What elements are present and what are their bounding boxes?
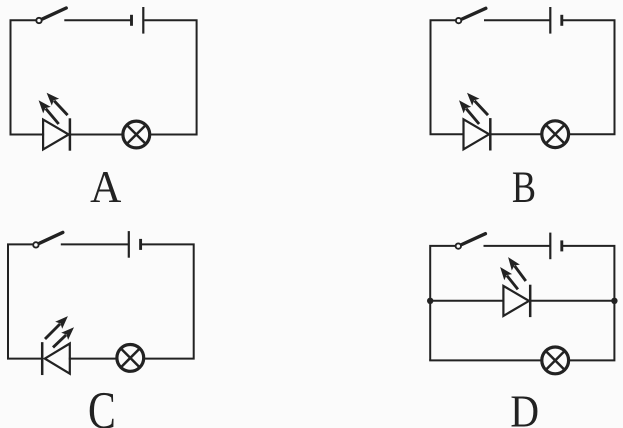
LED D2 triangle (circuit B): [464, 119, 490, 149]
LED D2 cathode bar (circuit B): [489, 118, 492, 150]
switch S3 (open, circuit C): [33, 232, 63, 247]
LED D1 light arrow 1 (circuit A): [47, 93, 68, 115]
switch S4 (open, circuit D): [456, 234, 486, 249]
lamp L3 (circuit C): [117, 345, 144, 372]
svg-text:C: C: [88, 383, 116, 428]
battery B2 (circuit B, long plate left / short plate right): [550, 7, 562, 34]
wire: circuit C switch to battery: [62, 243, 128, 245]
svg-text:D: D: [510, 387, 539, 428]
battery B4 (circuit D, long plate left / short plate right): [550, 233, 562, 260]
LED D4 light arrow 1 (circuit D): [508, 257, 526, 281]
LED D3 light arrow 1 (circuit C): [45, 316, 68, 339]
wire: circuit B lamp to LED: [490, 133, 541, 135]
LED D3 light arrow 2 (circuit C): [53, 327, 74, 347]
wire: circuit A left side, bottom-left corner to top-left corner: [11, 20, 37, 134]
switch S1 (open, circuit A): [36, 8, 66, 23]
label A: [90, 161, 121, 212]
wire: circuit D left side, bottom-left corner through junction to top-left corner: [430, 246, 455, 361]
junction node N1 (circuit D left): [427, 298, 433, 304]
LED D4 cathode bar (circuit D): [529, 285, 532, 317]
lamp L2 (circuit B): [542, 121, 569, 148]
wire: circuit B LED to bottom-left corner: [431, 133, 464, 135]
wire: circuit D switch to battery: [485, 245, 550, 247]
wire: circuit C left side, bottom-left corner to top-left corner: [8, 244, 33, 358]
svg-text:B: B: [512, 162, 536, 211]
lamp L4 (circuit D): [542, 347, 569, 374]
LED D2 light arrow 2 (circuit B): [459, 100, 479, 124]
LED D1 triangle (circuit A): [43, 120, 69, 150]
svg-text:A: A: [90, 161, 121, 212]
wire: circuit A battery to bottom-right corner: [144, 20, 196, 134]
battery B1 (circuit A, short plate left / long plate right): [132, 7, 144, 34]
lamp L1 (circuit A): [123, 121, 150, 148]
LED D3 cathode bar (circuit C): [41, 342, 44, 375]
LED D4 light arrow 2 (circuit D): [500, 267, 518, 289]
wire: circuit B left side, bottom-left corner to top-left corner: [431, 20, 457, 134]
switch S2 (open, circuit B): [456, 8, 486, 23]
wire: circuit D battery to top-right corner and down to bottom-right corner: [563, 246, 615, 361]
wire: circuit B battery to bottom-right corner: [563, 20, 615, 134]
LED D1 light arrow 2 (circuit A): [39, 100, 59, 124]
wire: circuit A LED to bottom-left corner: [11, 134, 44, 136]
LED D4 triangle (circuit D): [503, 286, 529, 316]
wire: circuit C battery to bottom-right corner: [142, 244, 194, 358]
wire: circuit D bottom, left corner to lamp: [430, 359, 541, 361]
LED D2 light arrow 1 (circuit B): [467, 93, 488, 115]
wire: circuit C LED to bottom-left corner: [8, 358, 42, 360]
label B: [512, 162, 536, 211]
wire: circuit D middle branch, left junction to LED: [430, 300, 503, 302]
junction node N2 (circuit D right): [611, 298, 617, 304]
battery B3 (circuit C, long plate left / short plate right): [129, 231, 141, 258]
wire: circuit B switch to battery: [485, 19, 549, 21]
LED D1 cathode bar (circuit A): [69, 118, 72, 150]
label D: [510, 387, 539, 428]
wire: circuit D middle branch, LED to right junction: [530, 300, 614, 302]
LED D3 triangle (circuit C): [45, 344, 70, 374]
wire: circuit A switch to battery: [65, 19, 130, 21]
wire: circuit A lamp to LED: [70, 134, 123, 136]
label C: [88, 383, 116, 428]
wire: circuit C lamp to LED: [70, 358, 117, 360]
